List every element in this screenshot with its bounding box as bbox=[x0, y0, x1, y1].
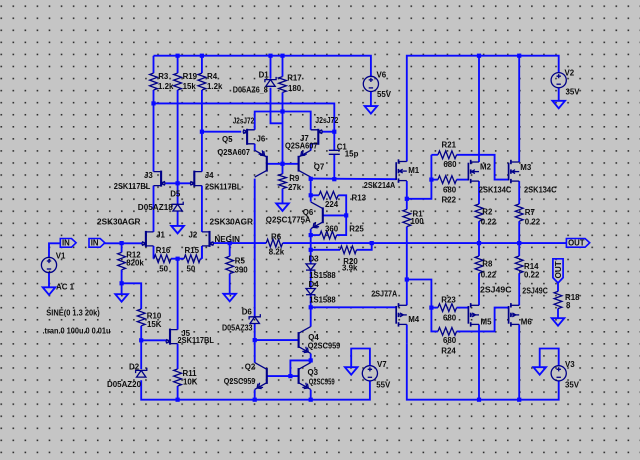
zener D5 bbox=[172, 202, 183, 211]
ground R12 bbox=[115, 294, 128, 302]
junction (311,250) bbox=[309, 248, 313, 252]
wire Q4 base row bbox=[255, 339, 299, 341]
svg-text:2SJ77A: 2SJ77A bbox=[371, 290, 397, 299]
wire R10-junction to D2 bbox=[140, 340, 142, 369]
wire Q7 collector to R13 junction bbox=[310, 177, 312, 195]
junction (311,235) bbox=[309, 233, 313, 237]
wire NEGIN to R5 bbox=[229, 243, 231, 256]
wire R5 to ground bbox=[229, 274, 231, 294]
junction (202,56) bbox=[200, 54, 204, 58]
svg-text:D2: D2 bbox=[129, 363, 140, 372]
wire J7 source to Q7 emitter bbox=[310, 144, 312, 151]
wire Q2-Q3 base row bbox=[267, 375, 299, 377]
wire M5 drain down bbox=[478, 325, 480, 400]
svg-text:J3: J3 bbox=[144, 171, 153, 180]
wire to Q4 collector bbox=[310, 307, 312, 326]
port OUT vertical bbox=[553, 259, 563, 283]
svg-text:J1: J1 bbox=[156, 231, 165, 240]
svg-text:D4: D4 bbox=[309, 280, 320, 289]
zener D1 bbox=[265, 77, 276, 86]
svg-text:8: 8 bbox=[566, 301, 571, 310]
wire J2 source down bbox=[201, 246, 203, 259]
svg-text:R24: R24 bbox=[441, 346, 456, 355]
svg-text:2SK117BL: 2SK117BL bbox=[114, 182, 151, 191]
svg-text:M5: M5 bbox=[481, 318, 493, 327]
ground V2 bbox=[552, 101, 565, 109]
mosfet M2 bbox=[468, 160, 479, 184]
resistor R2 bbox=[475, 204, 483, 221]
wire R12 bottom to R10 top bbox=[122, 283, 142, 293]
svg-text:Q2SC959: Q2SC959 bbox=[309, 378, 335, 387]
wire D5 to ground bbox=[177, 211, 179, 226]
wire V1 to IN flag bbox=[49, 243, 60, 257]
svg-text:2SK30AGR: 2SK30AGR bbox=[97, 218, 141, 227]
transistor Q7 bbox=[299, 150, 311, 177]
wire Q6 collector pin bbox=[310, 195, 312, 201]
wire R22 to M2 gate bbox=[457, 179, 469, 181]
svg-text:V3: V3 bbox=[565, 360, 575, 369]
wire IN to J1 gate bbox=[104, 242, 143, 244]
wire R20 right up bbox=[357, 243, 372, 250]
svg-text:Q6: Q6 bbox=[303, 208, 314, 217]
svg-text:V1: V1 bbox=[56, 251, 66, 260]
junction (282,56) bbox=[280, 54, 284, 58]
resistor R17 bbox=[279, 56, 287, 93]
junction (479,243) bbox=[477, 241, 481, 245]
wire R21 to M3 gate bbox=[457, 155, 509, 180]
junction (178,56) bbox=[176, 54, 180, 58]
svg-text:R22: R22 bbox=[442, 195, 457, 204]
svg-text:224: 224 bbox=[325, 200, 339, 209]
resistor R11 bbox=[174, 369, 182, 400]
wire C1 top lead bbox=[333, 132, 335, 151]
port OUT bbox=[566, 239, 589, 248]
resistor R18 bbox=[554, 291, 562, 308]
jfet J1 bbox=[142, 231, 154, 247]
resistor R6 bbox=[266, 239, 282, 247]
wire J3-J4 gate link bbox=[166, 182, 191, 184]
capacitor C1 bbox=[329, 150, 340, 154]
svg-text:2SJ49C: 2SJ49C bbox=[522, 287, 548, 296]
junction (122,243) bbox=[120, 241, 124, 245]
resistor R24 bbox=[438, 328, 457, 336]
voltage source V1 bbox=[41, 257, 56, 272]
resistor R19 bbox=[174, 73, 182, 90]
wire R8 to M5 source bbox=[478, 273, 480, 305]
svg-text:R19: R19 bbox=[183, 72, 198, 81]
svg-text:0.22: 0.22 bbox=[525, 218, 541, 227]
svg-text:M1: M1 bbox=[408, 166, 420, 175]
wire top rail right M1-V2 bbox=[407, 56, 559, 162]
svg-text:IN: IN bbox=[62, 239, 70, 248]
wire top rail left to V6 bbox=[154, 56, 371, 77]
junction (230,243) bbox=[228, 241, 232, 245]
junction (282,112) bbox=[280, 109, 284, 113]
svg-text:27k: 27k bbox=[288, 183, 302, 192]
svg-text:15k: 15k bbox=[183, 82, 197, 91]
svg-text:2SK214A: 2SK214A bbox=[364, 181, 396, 190]
svg-text:R21: R21 bbox=[442, 141, 457, 150]
svg-text:1S1588: 1S1588 bbox=[309, 271, 336, 280]
diode D3 bbox=[306, 264, 315, 270]
voltage source V2 bbox=[551, 73, 566, 88]
wire Q6 emitter col crossing OUT line bbox=[310, 229, 312, 250]
mosfet M4 bbox=[396, 303, 407, 327]
wire R7 to out line bbox=[518, 221, 520, 243]
svg-text:10K: 10K bbox=[183, 378, 198, 387]
svg-text:55V: 55V bbox=[377, 90, 392, 99]
svg-text:0.22: 0.22 bbox=[524, 270, 540, 279]
svg-text:R7: R7 bbox=[525, 208, 536, 217]
wire Q5-Q7 base row bbox=[267, 163, 299, 165]
svg-text:360: 360 bbox=[325, 224, 339, 233]
resistor R20 bbox=[340, 246, 357, 254]
wire M3 drain column bbox=[518, 56, 520, 162]
svg-text:R15: R15 bbox=[185, 246, 200, 255]
junction (346,215) bbox=[344, 213, 348, 217]
resistor R1 bbox=[403, 209, 411, 226]
svg-text:D5: D5 bbox=[170, 190, 181, 199]
wire R19 top lead bbox=[177, 56, 179, 73]
transistor Q5 bbox=[255, 150, 267, 177]
wire J1 source down bbox=[153, 246, 155, 259]
wire rail2 to J7 gate col bbox=[154, 103, 335, 131]
svg-text:D05AZ20: D05AZ20 bbox=[107, 380, 142, 389]
resistor R23 bbox=[438, 304, 457, 312]
junction (479,56) bbox=[477, 54, 481, 58]
svg-text:M3: M3 bbox=[520, 163, 532, 172]
jfet J4 bbox=[190, 171, 202, 187]
junction (519,243) bbox=[517, 241, 521, 245]
svg-text:J6: J6 bbox=[257, 135, 266, 144]
svg-text:820k: 820k bbox=[126, 258, 144, 267]
wire out to R14 bbox=[518, 243, 520, 256]
voltage source V7 bbox=[362, 366, 377, 381]
wire J5 source to R11 bbox=[177, 344, 179, 369]
svg-text:R25: R25 bbox=[349, 224, 364, 233]
junction (141,340) bbox=[139, 338, 143, 342]
wire R22 left stub bbox=[431, 179, 438, 181]
junction (122,283) bbox=[120, 281, 124, 285]
wire V7 top hook bbox=[351, 349, 370, 368]
junction (282,164) bbox=[280, 162, 284, 166]
ground V3 bbox=[533, 367, 546, 375]
svg-text:SINE(0 1.3 20k): SINE(0 1.3 20k) bbox=[46, 308, 100, 317]
junction (311,179) bbox=[309, 177, 313, 181]
svg-text:J2sJ72: J2sJ72 bbox=[233, 117, 255, 126]
wire R1 to out line bbox=[406, 227, 408, 244]
junction (311,400) bbox=[309, 398, 313, 402]
wire Q2 emitter down bbox=[254, 390, 256, 400]
ground R9 bbox=[276, 203, 289, 211]
svg-text:V2: V2 bbox=[565, 68, 575, 77]
wire J2 source down2 bbox=[201, 246, 203, 259]
svg-text:D05AZ6_8: D05AZ6_8 bbox=[233, 86, 269, 95]
wire out to R8 bbox=[478, 243, 480, 256]
voltage source V3 bbox=[551, 366, 566, 381]
junction (372,243) bbox=[370, 241, 374, 245]
junction (255,400) bbox=[253, 398, 257, 402]
resistor R16 bbox=[154, 255, 178, 263]
zener D6 bbox=[249, 314, 260, 323]
wire R17 col to base junction bbox=[282, 92, 284, 163]
svg-text:R16: R16 bbox=[156, 246, 171, 255]
mosfet M6 bbox=[509, 303, 520, 327]
svg-text:15K: 15K bbox=[147, 320, 162, 329]
jfet J7 bbox=[311, 129, 323, 145]
svg-text:OUT: OUT bbox=[554, 261, 563, 278]
wire J6-J7 top leads bbox=[255, 112, 311, 130]
svg-text:R5: R5 bbox=[235, 257, 246, 266]
wire Q3 emitter down bbox=[310, 390, 312, 400]
transistor Q2 bbox=[255, 363, 267, 390]
svg-text:Q5: Q5 bbox=[222, 135, 233, 144]
junction (154,103) bbox=[151, 101, 155, 105]
wire M2 drain column bbox=[478, 56, 480, 162]
wire R4 bottom lead bbox=[201, 90, 203, 103]
junction (407,199) bbox=[405, 197, 409, 201]
wire J6 gate from J4 col bbox=[202, 131, 241, 133]
resistor R3 bbox=[150, 56, 158, 104]
wire R23 left stub bbox=[431, 307, 438, 309]
svg-text:NEGIN: NEGIN bbox=[215, 235, 241, 244]
svg-text:100: 100 bbox=[411, 217, 425, 226]
svg-text:0.22: 0.22 bbox=[481, 270, 497, 279]
svg-text:680: 680 bbox=[443, 336, 457, 345]
svg-text:Q7: Q7 bbox=[314, 162, 325, 171]
wire M1 source to ladder bbox=[407, 155, 432, 199]
ground V6 bbox=[365, 106, 378, 114]
svg-text:Q2SA607: Q2SA607 bbox=[218, 148, 251, 157]
svg-text:8.2k: 8.2k bbox=[269, 248, 285, 257]
zener D2 bbox=[136, 368, 147, 377]
svg-text:Q2SC959: Q2SC959 bbox=[308, 342, 341, 351]
svg-text:35V: 35V bbox=[565, 381, 580, 390]
junction (431,308) bbox=[429, 306, 433, 310]
resistor R5 bbox=[226, 256, 234, 273]
svg-text:.tran.0 100u.0 0.01u: .tran.0 100u.0 0.01u bbox=[43, 327, 111, 336]
wire R21 left stub bbox=[431, 154, 438, 156]
resistor R21 bbox=[438, 151, 457, 159]
voltage source V6 bbox=[363, 76, 378, 91]
wire R13-R25 right loop bbox=[337, 195, 347, 235]
wire M4 drain down bbox=[406, 325, 408, 344]
svg-text:2SK117BL: 2SK117BL bbox=[178, 336, 215, 345]
jfet J3 bbox=[154, 171, 166, 187]
wire R4 top lead bbox=[201, 56, 203, 73]
transistor Q4 bbox=[299, 327, 311, 354]
wire J7 gate link bbox=[322, 131, 334, 133]
junction (178,259) bbox=[176, 257, 180, 261]
resistor R25 bbox=[311, 231, 337, 239]
svg-text:IN: IN bbox=[91, 239, 99, 248]
wire gate junction to D5 bbox=[177, 183, 179, 204]
svg-text:180: 180 bbox=[288, 84, 302, 93]
wire bottom rail left bbox=[141, 380, 370, 399]
wire J4 source to J2 drain bbox=[201, 186, 203, 232]
svg-text:J4: J4 bbox=[205, 171, 214, 180]
wire D1 top lead bbox=[270, 56, 272, 79]
svg-text:Q2SC959: Q2SC959 bbox=[224, 377, 256, 386]
wire R24 left stub bbox=[431, 308, 438, 332]
diode D4 bbox=[306, 289, 315, 295]
wire M4 col to lower ladder bbox=[407, 280, 432, 308]
svg-text:R9: R9 bbox=[289, 174, 300, 183]
junction (178,183) bbox=[176, 181, 180, 185]
svg-text:35V: 35V bbox=[566, 88, 581, 97]
wire M6 drain down bbox=[518, 325, 520, 400]
svg-text:R23: R23 bbox=[441, 295, 456, 304]
svg-text:1S1588: 1S1588 bbox=[309, 296, 336, 305]
svg-text:390: 390 bbox=[235, 266, 249, 275]
resistor R7 bbox=[515, 204, 523, 221]
junction (270,56) bbox=[268, 54, 272, 58]
wire R12 to ground bbox=[121, 283, 123, 294]
wire D6 to Q2 collector bbox=[254, 324, 256, 363]
wire C1 bottom lead bbox=[333, 154, 335, 179]
wire V6 bottom bbox=[370, 92, 372, 107]
svg-text:R13: R13 bbox=[352, 194, 367, 203]
resistor R8 bbox=[475, 256, 483, 273]
wire tail to J5 drain bbox=[177, 259, 179, 330]
wire R24 to M6 gate bbox=[457, 308, 509, 332]
wire M1 gate row bbox=[311, 178, 397, 181]
svg-text:AC 1: AC 1 bbox=[56, 283, 75, 292]
svg-text:V6: V6 bbox=[377, 71, 387, 80]
svg-text:15p: 15p bbox=[345, 150, 359, 159]
jfet J6 bbox=[243, 129, 255, 145]
wire R14 to M6 source bbox=[518, 273, 520, 305]
wire Q5 collector to D6 bbox=[254, 179, 256, 317]
junction (431,180) bbox=[429, 178, 433, 182]
svg-text:50: 50 bbox=[187, 265, 196, 274]
svg-text:V7: V7 bbox=[377, 360, 387, 369]
wire M2 source to R2 bbox=[478, 181, 480, 204]
svg-text:50: 50 bbox=[159, 265, 168, 274]
junction (519,56) bbox=[517, 54, 521, 58]
wire Q4 emitter to Q3 collector bbox=[310, 354, 312, 363]
ground V7 bbox=[345, 367, 358, 375]
resistor R14 bbox=[515, 256, 523, 273]
wire R2 to out line bbox=[478, 221, 480, 243]
svg-text:1.2k: 1.2k bbox=[158, 82, 174, 91]
svg-text:Q2SA607: Q2SA607 bbox=[285, 142, 318, 151]
jfet J5 bbox=[166, 329, 178, 345]
resistor R12 bbox=[118, 243, 126, 283]
resistor R15 bbox=[178, 255, 202, 263]
wire R19 bottom lead bbox=[177, 90, 179, 103]
resistor R13 bbox=[311, 191, 339, 199]
wire J3 drain col bbox=[153, 103, 155, 171]
wire R23 to M5 gate bbox=[457, 307, 469, 309]
svg-text:R17: R17 bbox=[287, 73, 302, 82]
wire J4 drain col bbox=[201, 103, 203, 171]
svg-text:D6: D6 bbox=[242, 308, 253, 317]
resistor R9 bbox=[279, 164, 287, 204]
wire V2 bottom bbox=[558, 88, 560, 101]
junction (479,400) bbox=[477, 398, 481, 402]
mosfet M1 bbox=[396, 159, 407, 183]
wire J5 gate row bbox=[141, 339, 166, 341]
wire OUT flag to R18 bbox=[557, 283, 559, 291]
wire to D3 bbox=[310, 250, 312, 264]
resistor R22 bbox=[438, 176, 457, 184]
svg-text:D05AZ18: D05AZ18 bbox=[138, 203, 174, 212]
wire J3 source to J1 drain bbox=[153, 186, 155, 232]
svg-text:R2: R2 bbox=[482, 208, 493, 217]
junction (311,360) bbox=[309, 358, 313, 362]
svg-text:M6: M6 bbox=[521, 318, 533, 327]
wire J6 source to Q5 emitter bbox=[254, 144, 256, 151]
svg-text:Q3: Q3 bbox=[308, 368, 319, 377]
resistor R4 bbox=[198, 73, 206, 90]
jfet J2 bbox=[202, 231, 214, 247]
junction (407,280) bbox=[405, 277, 409, 281]
wire D1 bottom to R17 col bbox=[271, 88, 283, 124]
transistor Q6 bbox=[311, 202, 323, 229]
svg-text:3.9k: 3.9k bbox=[342, 264, 358, 273]
svg-text:2SK117BL: 2SK117BL bbox=[205, 182, 242, 191]
transistor Q3 bbox=[299, 363, 311, 390]
junction (202,132) bbox=[200, 130, 204, 134]
wire out line to M4 source bbox=[406, 243, 408, 305]
svg-text:2SK134C: 2SK134C bbox=[479, 186, 512, 195]
svg-text:D1: D1 bbox=[259, 70, 270, 79]
junction (290,376) bbox=[288, 374, 292, 378]
port IN 1 bbox=[60, 239, 76, 248]
svg-text:D05AZ33: D05AZ33 bbox=[222, 324, 253, 333]
junction (255,340) bbox=[253, 338, 257, 342]
svg-text:R3: R3 bbox=[158, 72, 169, 81]
ground R5 bbox=[223, 294, 236, 302]
wire NEGIN segment bbox=[213, 242, 266, 244]
resistor R10 bbox=[137, 293, 145, 340]
ground D5 bbox=[171, 226, 184, 234]
wire V3 top hook bbox=[540, 349, 559, 368]
wire D3-D4 link bbox=[310, 270, 312, 288]
wire D4 to M4 gate junction bbox=[310, 295, 312, 308]
wire bottom rail right bbox=[407, 344, 559, 400]
svg-text:J2sJ72: J2sJ72 bbox=[315, 116, 339, 125]
svg-text:2SK134C: 2SK134C bbox=[524, 186, 557, 195]
port IN 2 bbox=[89, 239, 105, 248]
svg-text:R4: R4 bbox=[207, 72, 218, 81]
svg-text:2SJ49C: 2SJ49C bbox=[480, 286, 512, 295]
wire M1 source to R1 bbox=[406, 181, 408, 209]
junction (334,179) bbox=[332, 177, 336, 181]
svg-text:0.22: 0.22 bbox=[481, 218, 497, 227]
ground V1 bbox=[43, 287, 56, 295]
junction (334,132) bbox=[332, 130, 336, 134]
svg-text:M4: M4 bbox=[408, 315, 420, 324]
svg-text:R8: R8 bbox=[482, 259, 493, 268]
wire Q6 base to loop bbox=[323, 214, 346, 216]
junction (178,400) bbox=[176, 398, 180, 402]
junction (311,195) bbox=[309, 193, 313, 197]
svg-text:D3: D3 bbox=[309, 255, 320, 264]
ground R18 bbox=[552, 318, 565, 326]
svg-text:R6: R6 bbox=[271, 232, 282, 241]
wire M4 gate row bbox=[311, 306, 397, 308]
svg-text:2SK30AGR: 2SK30AGR bbox=[210, 218, 254, 227]
svg-text:Q2: Q2 bbox=[245, 363, 256, 372]
svg-text:680: 680 bbox=[443, 185, 457, 194]
junction (519,400) bbox=[517, 398, 521, 402]
wire M3 source to R7 bbox=[518, 181, 520, 204]
mosfet M5 bbox=[468, 303, 479, 327]
svg-text:J2: J2 bbox=[189, 231, 198, 240]
svg-text:1.2k: 1.2k bbox=[207, 82, 223, 91]
